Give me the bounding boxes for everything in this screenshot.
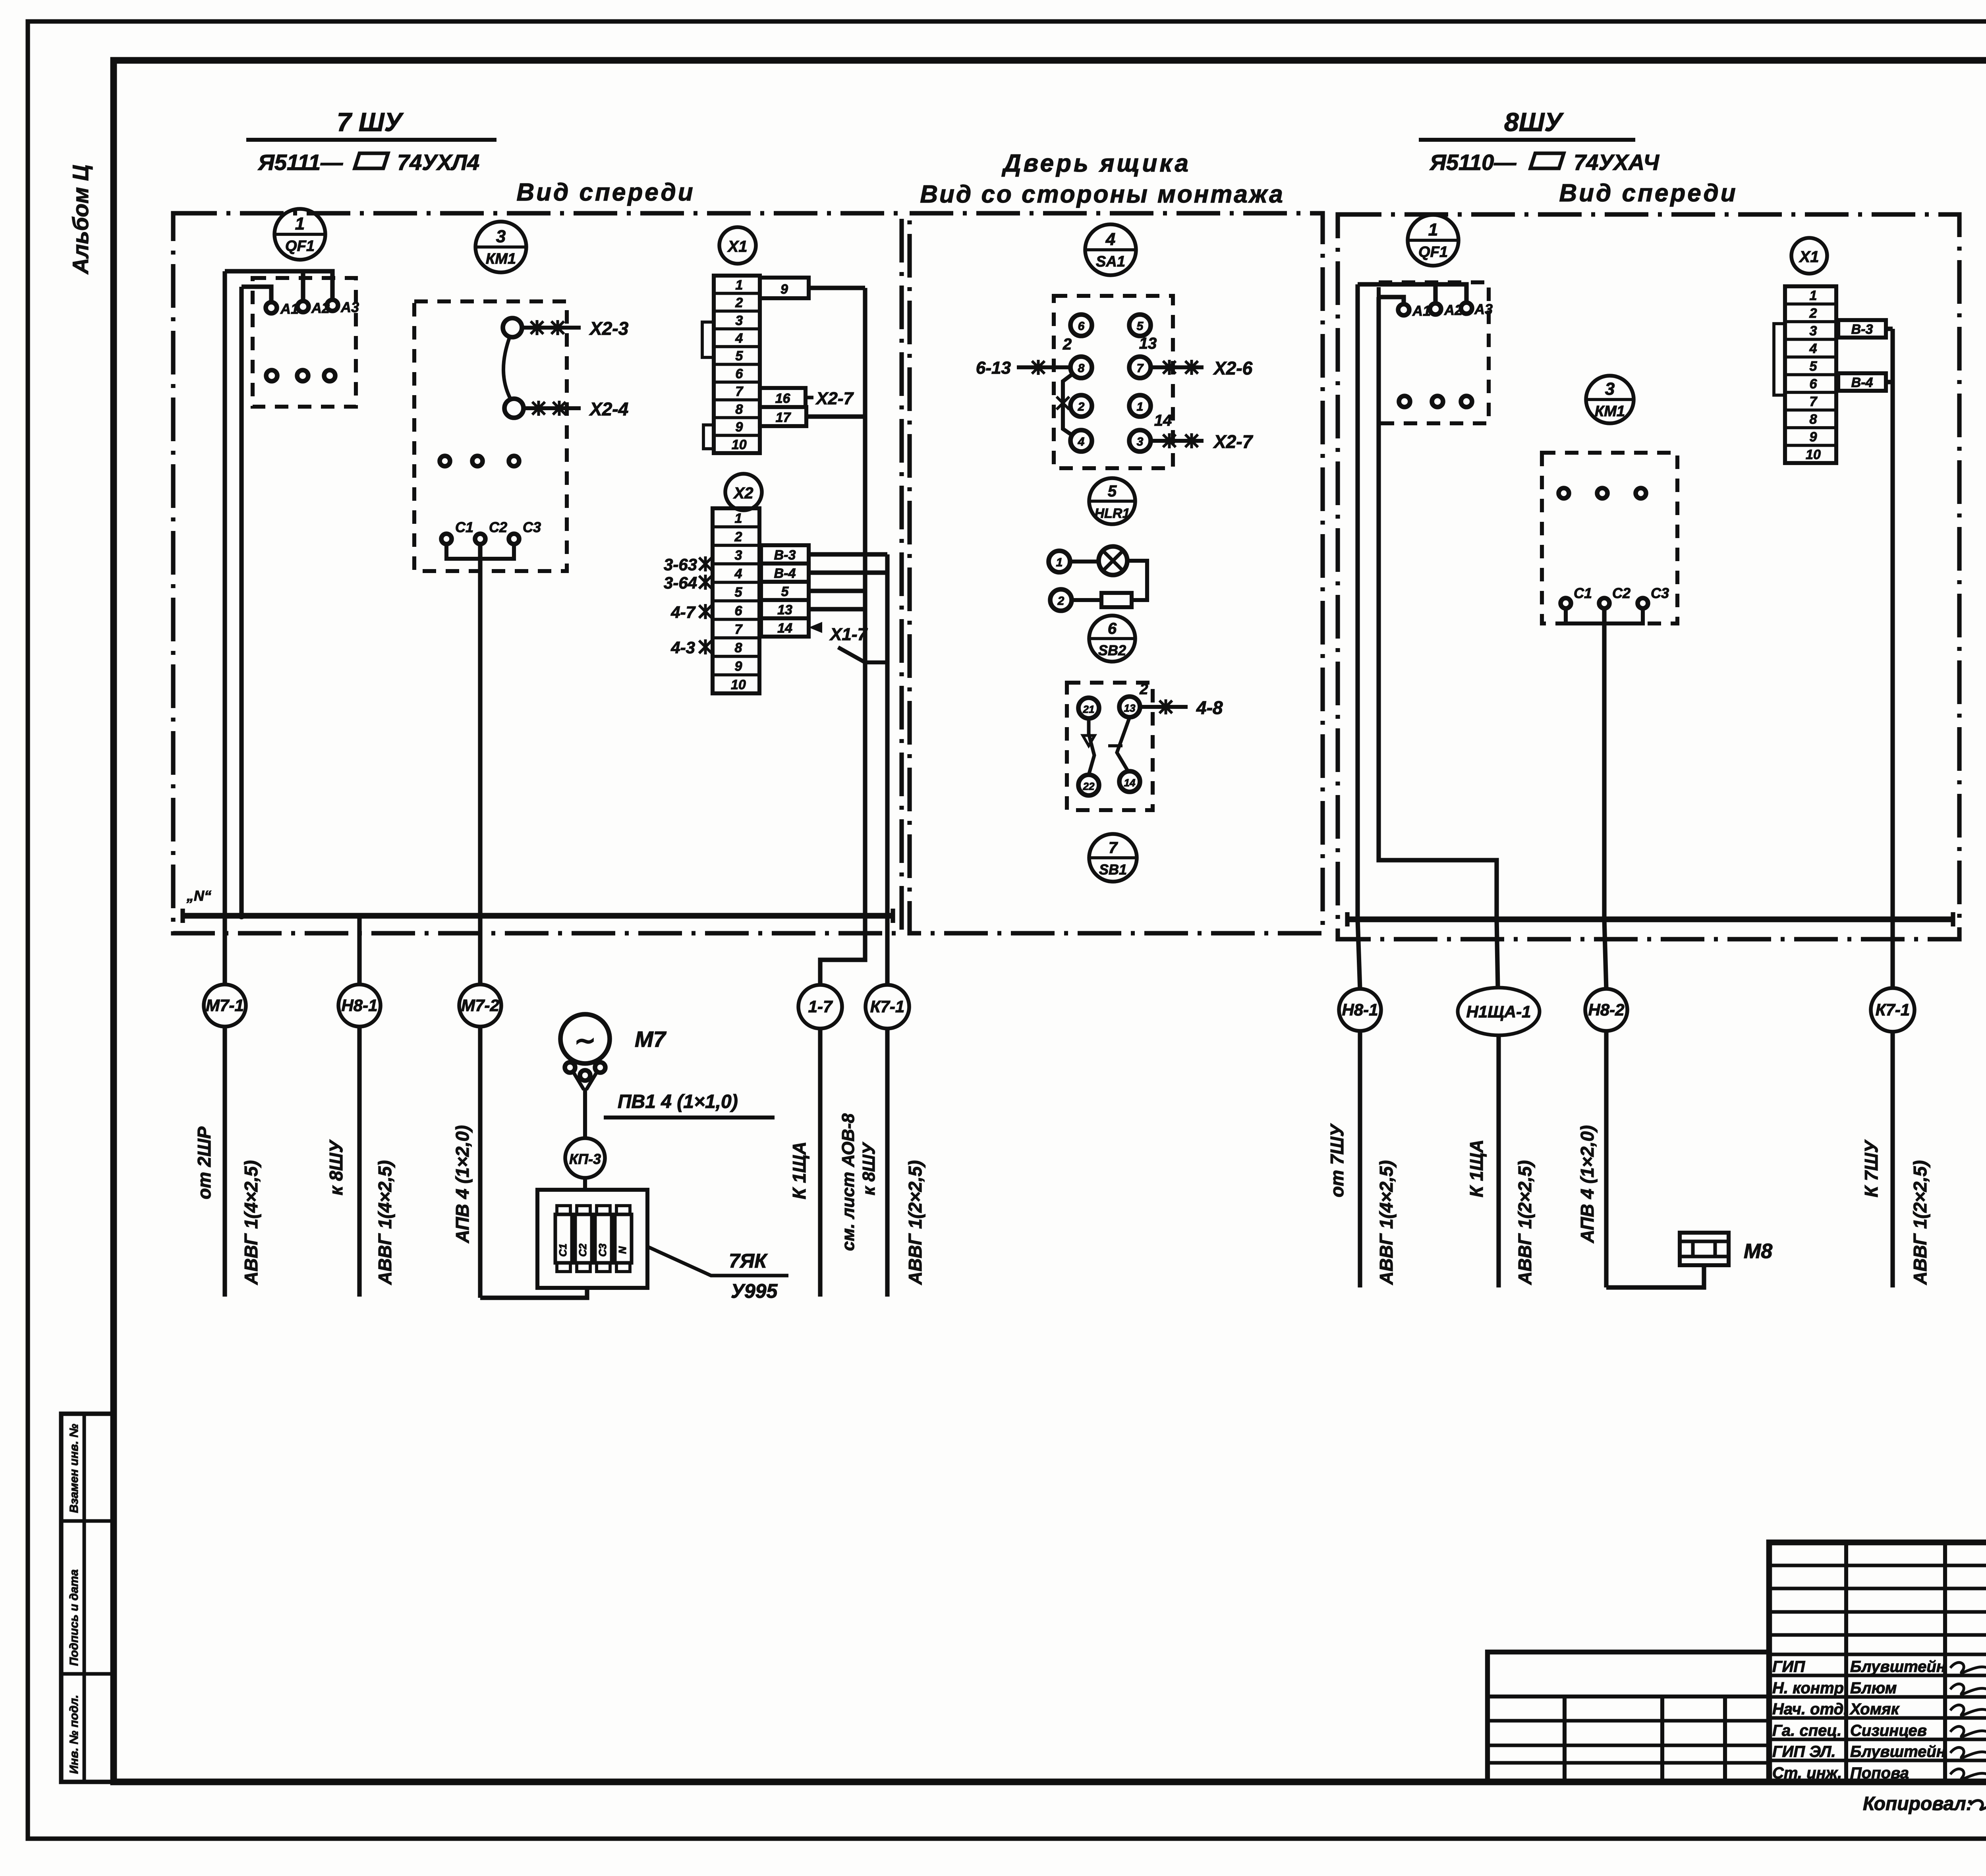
svg-text:7: 7 [735, 384, 744, 399]
fuse leader label 7YAK U995 [648, 1247, 788, 1302]
switch SA1 designator [1085, 224, 1136, 275]
cable K7-1 (left) [865, 985, 909, 1297]
label X2-7 pointer [806, 389, 854, 408]
cable N1ShchA-1 [1458, 919, 1540, 1287]
svg-text:10: 10 [1806, 447, 1821, 462]
svg-text:4: 4 [734, 566, 742, 581]
wire X1-3 to riser (8ShU) [1886, 326, 1893, 331]
svg-text:2: 2 [1809, 306, 1817, 321]
cable PV1 label [604, 1091, 775, 1117]
svg-text:Х2-6: Х2-6 [1213, 358, 1253, 378]
svg-text:КМ1: КМ1 [486, 251, 516, 267]
svg-text:М8: М8 [1744, 1240, 1772, 1263]
svg-text:5: 5 [781, 584, 789, 599]
wire X2-5 to 1-7 riser [809, 589, 865, 593]
terminal block X2 (7ShU) [713, 508, 759, 693]
svg-text:К 1ЩА: К 1ЩА [789, 1142, 809, 1199]
X2 stub pin7 wire 14 [761, 618, 809, 637]
svg-text:3: 3 [735, 313, 743, 328]
breaker QF1 designator (8ShU) [1408, 215, 1459, 266]
cable M7-1 labels [194, 1127, 261, 1285]
svg-text:„N“: „N“ [186, 888, 211, 904]
cable 1-7 [798, 985, 842, 1297]
SA1 wire numbers [1063, 335, 1172, 429]
svg-text:QF1: QF1 [285, 238, 315, 255]
riser wire to cable K7-1 (8ShU) [1890, 329, 1895, 988]
view label front (left) [516, 179, 695, 206]
X2 stub pin3 wire B-3 [761, 545, 809, 564]
svg-text:74УХАЧ: 74УХАЧ [1574, 150, 1660, 175]
svg-text:К7-1: К7-1 [1876, 1000, 1910, 1019]
lamp HLR1 designator [1089, 478, 1135, 524]
svg-text:Альбом Ц: Альбом Ц [68, 165, 93, 275]
svg-text:QF1: QF1 [1418, 244, 1448, 261]
svg-text:Х2-3: Х2-3 [589, 318, 629, 339]
contactor KM1 body (8ShU) [1542, 453, 1677, 623]
title block stamp [1769, 1542, 1986, 1782]
svg-text:Вид спереди: Вид спереди [516, 179, 695, 206]
svg-text:В-4: В-4 [774, 566, 796, 581]
bus wire N (7ShU bottom) [183, 888, 893, 923]
terminal block X1 (7ShU) [714, 276, 760, 453]
svg-text:С3: С3 [523, 519, 541, 535]
wire QF1-A3 loop (8ShU) [1358, 284, 1466, 302]
svg-text:5: 5 [735, 349, 743, 364]
jumper C1-C3 (KM1 8ShU) [1566, 608, 1643, 623]
svg-text:Блюм: Блюм [1850, 1679, 1897, 1697]
terminal block X1 designator (7ShU) [719, 227, 756, 264]
svg-text:В-4: В-4 [1851, 375, 1873, 390]
contactor KM1 body (7ShU) [414, 301, 567, 571]
svg-text:А3: А3 [1474, 301, 1493, 317]
left vertical stamp [61, 1414, 114, 1782]
signature rows [1772, 1658, 1986, 1782]
contactor KM1 designator (7ShU) [475, 222, 526, 272]
svg-text:8: 8 [735, 402, 743, 417]
revision table [1488, 1652, 1769, 1782]
wire X1-6 to riser (8ShU) [1886, 380, 1893, 384]
wire to N8-1 cable (8ShU) [1354, 284, 1361, 923]
svg-text:Ст. инж.: Ст. инж. [1772, 1764, 1842, 1782]
terminal block X2 designator (7ShU) [725, 474, 762, 510]
wire to N8-1 drop [238, 287, 245, 919]
svg-text:Нач. отд.: Нач. отд. [1772, 1700, 1848, 1718]
terminal block X1 (8ShU) [1785, 286, 1836, 463]
svg-text:Хомяк: Хомяк [1849, 1700, 1900, 1718]
svg-text:1: 1 [734, 511, 742, 526]
X2 stub pin5 wire 5 [761, 582, 809, 600]
svg-text:Я5111—: Я5111— [257, 150, 343, 175]
jumper wire to X2-4 [524, 399, 628, 419]
enclosure outline 7ShU (front view) [173, 213, 902, 933]
svg-text:14: 14 [1124, 777, 1136, 789]
svg-text:13: 13 [777, 602, 792, 618]
svg-text:Х1: Х1 [1799, 248, 1819, 266]
svg-text:4: 4 [1809, 341, 1817, 356]
wire to N1ShchA-1 cable [1379, 297, 1500, 923]
cable N8-1 labels (right) [1327, 1123, 1397, 1285]
svg-text:Вид со стороны монтажа: Вид со стороны монтажа [920, 181, 1285, 208]
svg-text:7: 7 [1109, 839, 1118, 857]
wire QF1-A3 loop (7ShU) [225, 271, 332, 299]
svg-text:от 2ШР: от 2ШР [194, 1127, 214, 1199]
svg-text:6: 6 [735, 366, 743, 381]
svg-text:см. лист АОВ-8: см. лист АОВ-8 [838, 1113, 858, 1251]
svg-text:3-63: 3-63 [664, 555, 697, 574]
svg-text:7 ШУ: 7 ШУ [337, 107, 404, 137]
cable K7-1 labels (left) [859, 1142, 925, 1285]
wire SB2 to 4-8 [1140, 697, 1223, 718]
lamp HLR1 terminal 1 [1049, 551, 1099, 572]
svg-text:Дверь ящика: Дверь ящика [1001, 150, 1191, 177]
svg-text:Подпись и дата: Подпись и дата [68, 1569, 81, 1666]
svg-text:∼: ∼ [574, 1026, 596, 1055]
svg-text:1-7: 1-7 [808, 997, 833, 1016]
wire KP-3 to fuse box [583, 1178, 587, 1190]
X1 bracket (8ShU) [1774, 324, 1785, 395]
cable N8-1 labels (left) [326, 1139, 395, 1285]
wire X2-3 to K7-1 riser [809, 552, 887, 556]
svg-text:ПВ1 4 (1×1,0): ПВ1 4 (1×1,0) [618, 1091, 738, 1112]
lamp HLR1 bulb [1099, 546, 1127, 575]
header 8ShU title [1419, 107, 1660, 175]
svg-text:КМ1: КМ1 [1595, 403, 1625, 420]
svg-text:9: 9 [780, 282, 788, 297]
svg-text:7: 7 [1809, 394, 1818, 409]
svg-text:14: 14 [1154, 412, 1172, 429]
svg-text:6: 6 [1108, 620, 1117, 637]
svg-text:А1: А1 [280, 301, 299, 317]
svg-text:Х2-4: Х2-4 [589, 399, 628, 419]
svg-text:6: 6 [734, 603, 742, 618]
cable 1-7 labels [789, 1113, 858, 1251]
breaker QF1 designator (7ShU) [274, 209, 325, 260]
svg-text:Га. спец.: Га. спец. [1772, 1722, 1841, 1739]
svg-text:С3: С3 [1651, 585, 1669, 601]
svg-text:2: 2 [1139, 681, 1148, 698]
svg-text:Взамен инв. №: Взамен инв. № [68, 1424, 81, 1513]
svg-text:Блувштейн: Блувштейн [1850, 1743, 1946, 1760]
svg-text:3: 3 [1137, 435, 1144, 448]
svg-text:9: 9 [735, 419, 743, 434]
svg-text:8ШУ: 8ШУ [1504, 107, 1564, 137]
svg-text:5: 5 [1137, 320, 1144, 333]
svg-text:Х1: Х1 [727, 238, 748, 255]
svg-text:2: 2 [735, 295, 743, 311]
X1 stub pin7 wire 16 [760, 388, 806, 407]
riser wire to cable K7-1 (left) [885, 554, 889, 986]
svg-text:Х2-7: Х2-7 [1213, 431, 1254, 452]
svg-text:С1: С1 [455, 519, 473, 535]
svg-text:Х2: Х2 [733, 484, 753, 502]
svg-text:Инв. № подл.: Инв. № подл. [68, 1695, 81, 1774]
svg-text:Копировал:: Копировал: [1863, 1793, 1972, 1814]
motor M7 [560, 1014, 667, 1090]
svg-text:9: 9 [734, 659, 742, 674]
cable M7-1 [204, 916, 246, 1297]
svg-text:от 7ШУ: от 7ШУ [1327, 1123, 1347, 1197]
lamp HLR1 terminal 2 [1050, 589, 1101, 611]
svg-text:У995: У995 [731, 1280, 778, 1302]
svg-text:10: 10 [731, 677, 746, 693]
svg-text:4-3: 4-3 [670, 638, 695, 657]
wire C2 to M7-2 cable [477, 544, 484, 919]
enclosure outline 8ShU (front view) [1338, 214, 1959, 939]
svg-text:1: 1 [1137, 400, 1144, 413]
door view header [920, 150, 1285, 208]
button SB1 designator [1089, 834, 1137, 882]
wire X2-4 to K7-1 riser [809, 570, 887, 575]
header 7ShU title [246, 107, 496, 175]
cable N8-2 [1585, 919, 1627, 1287]
fuse assembly 7YAK box [537, 1190, 647, 1288]
svg-text:С1: С1 [557, 1243, 569, 1256]
svg-text:Н8-1: Н8-1 [1342, 1000, 1378, 1019]
junction KP-3 [565, 1138, 605, 1178]
svg-text:Н. контр: Н. контр [1772, 1679, 1844, 1697]
svg-text:Н8-1: Н8-1 [341, 996, 377, 1015]
svg-text:4: 4 [1105, 230, 1115, 249]
svg-text:С2: С2 [1612, 585, 1631, 601]
wire lamp to resistor [1127, 561, 1147, 600]
svg-text:2: 2 [1063, 336, 1072, 353]
svg-text:АВВГ 1(2×2,5): АВВГ 1(2×2,5) [1515, 1160, 1535, 1285]
cable K7-1 (right) [1871, 988, 1915, 1287]
X2 left jumper label 3-64 [664, 573, 712, 592]
button SB2 designator [1089, 616, 1135, 662]
contactor KM1 designator (8ShU) [1586, 376, 1634, 423]
svg-text:2: 2 [1078, 400, 1085, 413]
svg-text:13: 13 [1139, 335, 1157, 352]
svg-text:5: 5 [1809, 359, 1817, 374]
svg-text:К7-1: К7-1 [870, 997, 905, 1016]
cable N8-2 label [1577, 1125, 1598, 1243]
svg-text:2: 2 [734, 529, 742, 544]
breaker QF1 body (7ShU) [253, 278, 359, 407]
wire fuse box to M7-2 run [480, 1288, 587, 1298]
X1 stub pin1 wire 9 [760, 278, 809, 298]
svg-text:8: 8 [1078, 362, 1085, 375]
svg-text:2: 2 [1057, 594, 1064, 608]
svg-text:М7-2: М7-2 [461, 996, 499, 1015]
svg-text:АПВ 4 (1×2,0): АПВ 4 (1×2,0) [452, 1125, 473, 1243]
svg-text:5: 5 [1108, 483, 1117, 500]
svg-text:1: 1 [735, 278, 743, 293]
svg-text:М7: М7 [635, 1027, 667, 1052]
svg-text:А2: А2 [311, 300, 330, 316]
svg-text:АВВГ 1(2×2,5): АВВГ 1(2×2,5) [905, 1160, 925, 1285]
svg-text:к 8ШУ: к 8ШУ [859, 1142, 879, 1195]
svg-text:3-64: 3-64 [664, 573, 697, 592]
svg-text:22: 22 [1083, 780, 1095, 792]
svg-text:1: 1 [1428, 220, 1438, 239]
wire QF1-A2 stub (7ShU) [301, 271, 305, 300]
wire QF1-A2 stub (8ShU) [1433, 284, 1437, 303]
svg-text:АВВГ 1(4×2,5): АВВГ 1(4×2,5) [241, 1160, 261, 1285]
wire SA1-8 to 6-13 [976, 358, 1070, 378]
svg-text:К 1ЩА: К 1ЩА [1466, 1140, 1487, 1197]
wire X1-8 to riser [806, 414, 865, 419]
svg-text:В-3: В-3 [1851, 322, 1873, 337]
svg-text:Попова: Попова [1850, 1764, 1909, 1782]
cable N8-1 (left) [338, 916, 381, 1297]
svg-text:N: N [616, 1246, 628, 1254]
svg-text:6: 6 [1809, 376, 1817, 392]
svg-text:HLR1: HLR1 [1095, 506, 1130, 521]
button SB2 body [1067, 681, 1153, 810]
svg-text:А1: А1 [1412, 303, 1431, 319]
svg-text:Х1-7: Х1-7 [829, 625, 868, 644]
svg-text:Сизинцев: Сизинцев [1850, 1722, 1927, 1739]
svg-text:Я5110—: Я5110— [1429, 150, 1517, 175]
jumper wire to X2-3 [522, 318, 629, 339]
svg-text:КП-3: КП-3 [569, 1151, 601, 1167]
svg-text:6: 6 [1078, 320, 1085, 333]
svg-text:3: 3 [1809, 324, 1817, 339]
svg-text:АВВГ 1(2×2,5): АВВГ 1(2×2,5) [1910, 1160, 1930, 1285]
svg-text:13: 13 [1124, 702, 1136, 714]
svg-text:SA1: SA1 [1096, 253, 1125, 270]
svg-text:С3: С3 [597, 1243, 609, 1257]
svg-text:М7-1: М7-1 [206, 996, 244, 1015]
svg-text:4-7: 4-7 [670, 603, 695, 621]
svg-text:С1: С1 [1574, 585, 1592, 601]
wire C2 to N8-2 cable [1601, 608, 1608, 923]
svg-text:5: 5 [734, 585, 742, 600]
wire QF1-A1 loop (8ShU) [1379, 297, 1404, 303]
svg-text:АВВГ 1(4×2,5): АВВГ 1(4×2,5) [375, 1160, 395, 1285]
svg-text:А3: А3 [340, 299, 359, 315]
svg-text:SB1: SB1 [1099, 861, 1127, 878]
svg-text:Н1ЩА-1: Н1ЩА-1 [1466, 1002, 1531, 1021]
svg-text:Вид спереди: Вид спереди [1559, 179, 1737, 207]
svg-text:8: 8 [1809, 412, 1817, 427]
svg-text:ГИП: ГИП [1772, 1658, 1805, 1675]
bus wire (8ShU bottom) [1347, 912, 1953, 926]
SB2 contact symbols [1083, 717, 1130, 775]
door panel outline [910, 213, 1323, 933]
svg-text:3: 3 [496, 227, 506, 246]
svg-text:3: 3 [1605, 379, 1615, 399]
svg-text:С2: С2 [489, 519, 507, 535]
svg-text:7: 7 [1137, 362, 1144, 375]
switch SA1 body [1054, 296, 1173, 468]
aux switch contact (KM1 7ShU) [503, 318, 524, 418]
svg-text:1: 1 [295, 214, 305, 234]
heater M8 [1680, 1233, 1772, 1265]
cable N1ShchA-1 labels [1466, 1140, 1535, 1285]
svg-text:С2: С2 [577, 1243, 589, 1257]
album label [68, 165, 93, 275]
copied by [1863, 1793, 1986, 1814]
svg-text:8: 8 [734, 641, 742, 656]
svg-text:4: 4 [735, 331, 743, 346]
X1 stub pin8 wire 17 [760, 407, 806, 426]
X2 stub pin4 wire B-4 [761, 564, 809, 582]
svg-text:74УХЛ4: 74УХЛ4 [397, 150, 479, 175]
svg-text:К 7ШУ: К 7ШУ [1861, 1139, 1882, 1197]
wire X1-1 to riser [809, 286, 865, 290]
wire X2-6 to 1-7 riser [809, 607, 865, 611]
svg-text:7: 7 [734, 622, 743, 637]
cable M7-2 [459, 916, 501, 1298]
cable N8-1 (right) [1339, 919, 1381, 1287]
jumper SA1 8-4 [1057, 374, 1072, 435]
svg-text:4: 4 [1078, 435, 1085, 448]
terminal block X1 designator (8ShU) [1791, 238, 1827, 274]
jumper C1-C3 (KM1 7ShU) [446, 544, 514, 559]
wire M7 to KP-3 [583, 1089, 587, 1138]
svg-text:7ЯК: 7ЯК [729, 1250, 768, 1272]
svg-text:3: 3 [734, 548, 742, 563]
wire to M7-1 cable [221, 271, 228, 919]
svg-text:14: 14 [777, 621, 792, 636]
svg-text:Н8-2: Н8-2 [1588, 1000, 1624, 1019]
svg-text:АВВГ 1(4×2,5): АВВГ 1(4×2,5) [1376, 1160, 1397, 1285]
svg-text:10: 10 [732, 437, 747, 452]
svg-text:9: 9 [1809, 430, 1817, 445]
svg-text:1: 1 [1809, 288, 1817, 303]
X1 bracket marks [702, 322, 714, 449]
svg-text:SB2: SB2 [1098, 642, 1126, 658]
svg-text:к 8ШУ: к 8ШУ [326, 1139, 346, 1195]
svg-text:АПВ 4 (1×2,0): АПВ 4 (1×2,0) [1577, 1125, 1598, 1243]
svg-text:Х2-7: Х2-7 [815, 389, 854, 408]
svg-text:Блувштейн: Блувштейн [1850, 1658, 1946, 1675]
svg-text:А2: А2 [1444, 302, 1462, 318]
X2 stub pin6 wire 13 [761, 600, 809, 618]
svg-text:1: 1 [1056, 556, 1063, 569]
X2 left jumper label 3-63 [664, 555, 712, 574]
view label front (right) [1559, 179, 1737, 207]
wire SA1-3 to X2-7 [1151, 431, 1254, 452]
X2 left jumper label 4-3 [670, 638, 712, 657]
label X1-7 pointer box [809, 622, 887, 662]
svg-text:6-13: 6-13 [976, 358, 1011, 378]
wire QF1-A1 loop (7ShU) [241, 287, 271, 301]
X2 left jumper label 4-7 [670, 603, 712, 621]
resistor of HLR1 [1101, 593, 1132, 607]
svg-text:17: 17 [776, 410, 792, 425]
X1 stub pin6 wire V-4 (8ShU) [1838, 373, 1886, 391]
cable K7-1 labels (right) [1861, 1139, 1930, 1285]
svg-text:4-8: 4-8 [1196, 697, 1223, 718]
riser wire to cable 1-7 [820, 288, 865, 986]
breaker QF1 body (8ShU) [1379, 282, 1493, 423]
wire SA1-7 to X2-6 [1151, 358, 1253, 378]
wire N8-2 to M8 [1606, 1265, 1704, 1287]
svg-text:16: 16 [775, 391, 791, 406]
cable M7-2 label [452, 1125, 473, 1243]
svg-text:ГИП ЭЛ.: ГИП ЭЛ. [1772, 1743, 1836, 1760]
X1 stub pin3 wire V-3 (8ShU) [1838, 320, 1886, 338]
svg-text:21: 21 [1083, 703, 1095, 715]
svg-text:В-3: В-3 [774, 548, 796, 563]
